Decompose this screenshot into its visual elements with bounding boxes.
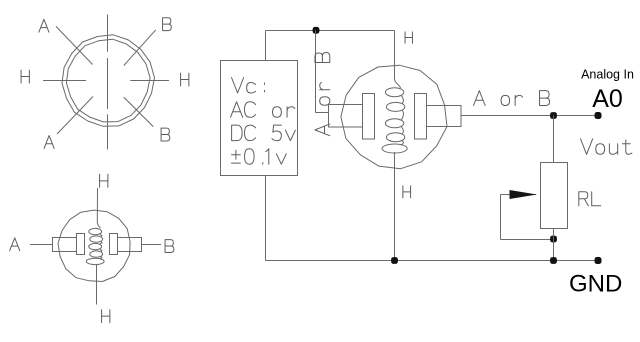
U3 heater lead bottom (H) (394, 152, 396, 261)
U2 right electrode plate (110, 234, 118, 255)
label A (U1 upper-left pin) (39, 19, 49, 32)
label GND (569, 271, 622, 298)
label Vout (581, 139, 632, 154)
svg-text:Analog In: Analog In (581, 68, 634, 82)
U2 heater coil (86, 228, 104, 264)
resistor RL body (541, 163, 568, 229)
label B (U2 right pin) (165, 240, 174, 253)
U3 left electrode plate (363, 94, 375, 140)
label H (U3 bottom pin) (403, 186, 411, 198)
label H (U1 left pin) (21, 70, 29, 83)
U1 pin line A upper-left diagonal (56, 26, 93, 64)
junction node RL bottom (550, 236, 557, 243)
RL wiper arrow line (501, 194, 537, 196)
sensor U3 body circle (341, 65, 447, 169)
label ±0.1v (231, 149, 286, 164)
wire Vc- drop (box bottom to rail) (265, 176, 267, 261)
label B (U1 lower-right pin) (161, 128, 170, 141)
label H (U1 right pin) (181, 73, 189, 86)
U1 pin line B lower-right diagonal (124, 97, 154, 127)
label H (U2 bottom) (102, 310, 110, 323)
terminal GND (595, 257, 602, 264)
wire Vout to RL (553, 116, 555, 163)
label H (U3 top pin) (405, 32, 412, 43)
sensor U1 top-view body (outer ring) (62, 35, 155, 126)
wire A-or-B to U3 left pin (316, 112, 330, 114)
label RL (579, 192, 601, 206)
wire pin B (U2 right) (142, 244, 161, 246)
label A0 (592, 85, 623, 113)
label Vc: (232, 78, 265, 93)
U1 pin line H top vertical (107, 14, 109, 51)
voltage source Vc box (221, 61, 298, 176)
junction node Vout (550, 112, 557, 119)
wire U3 output to A0 (461, 115, 598, 117)
U3 left pin sleeve (329, 105, 363, 128)
RL wiper return drop (500, 195, 502, 240)
U2 left pin sleeve (53, 238, 77, 252)
wire Vc+ riser (box top to rail) (265, 31, 267, 61)
U1 pin line A lower-left diagonal (57, 97, 93, 135)
junction node Vc/A-or-B (313, 27, 320, 34)
U3 heater coil (382, 88, 407, 153)
sensor U1 top-view body (inner ring) (66, 39, 150, 122)
U1 pin line B upper-right diagonal (124, 30, 156, 66)
junction node RL/GND (550, 257, 557, 264)
wire RL bottom to rail (553, 229, 555, 261)
U2 left electrode plate (77, 234, 85, 255)
label H (U2 top) (100, 174, 108, 187)
U3 right pin sleeve (427, 106, 462, 127)
label B (U1 upper-right pin) (163, 18, 172, 31)
U2 heater lead top (97, 188, 100, 228)
U1 pin line H right horizontal (130, 80, 169, 82)
U1 pin line H left horizontal (43, 80, 86, 82)
wire top supply rail (266, 30, 395, 32)
U2 heater lead bottom (96, 264, 98, 304)
junction node U3 heater/GND (391, 257, 398, 264)
svg-text:A0: A0 (592, 85, 623, 113)
label A or B (rotated, U3 left pin net) (315, 52, 330, 135)
label AC or (231, 102, 295, 117)
U3 right electrode plate (415, 94, 427, 140)
U3 heater lead top (H) (395, 31, 401, 89)
svg-text:GND: GND (569, 271, 622, 298)
label A or B (output net) (474, 91, 550, 106)
label Analog In (581, 68, 634, 82)
terminal A0 (595, 112, 602, 119)
U1 center axis segment (107, 58, 109, 109)
label A (U1 lower-left pin) (44, 136, 54, 149)
RL wiper arrowhead (510, 190, 538, 199)
sensor U2 body circle (58, 210, 130, 281)
label A (U2 left pin) (10, 238, 20, 251)
U1 pin line H bottom vertical (107, 114, 109, 149)
wire bottom ground rail (266, 260, 599, 262)
label DC 5v (232, 125, 296, 140)
wire pin A (U2 left) (30, 244, 52, 246)
U2 right pin sleeve (118, 238, 142, 252)
RL wiper return run (501, 239, 554, 241)
wire A-or-B drop (315, 31, 317, 113)
